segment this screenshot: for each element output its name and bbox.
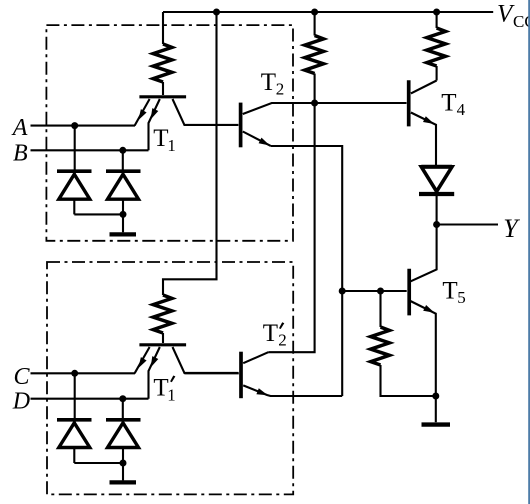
- T1' emitter 1: [135, 347, 150, 373]
- diode D5 (output shift diode): [419, 167, 454, 225]
- arrow T1 emitter2: [151, 108, 159, 119]
- junction dot D-D4: [119, 395, 126, 402]
- wire A to diode D1: [74, 126, 76, 176]
- wire rail drop to R1: [162, 12, 164, 44]
- svg-text:T: T: [153, 125, 168, 152]
- junction dot R3 top: [377, 288, 384, 295]
- junction dot T5 base node: [339, 288, 346, 295]
- svg-text:1: 1: [167, 385, 176, 404]
- dashed box block 2 (lower AND gate): [47, 262, 293, 494]
- svg-text:B: B: [13, 140, 28, 166]
- svg-text:T: T: [261, 69, 276, 96]
- svg-text:C: C: [14, 364, 31, 390]
- wire R1' to T1' base: [162, 333, 164, 343]
- svg-text:T: T: [442, 278, 457, 305]
- svg-text:4: 4: [457, 100, 466, 119]
- ground 2: [110, 480, 137, 484]
- page right blue border: [528, 0, 530, 504]
- diode D1: [57, 171, 92, 214]
- svg-text:D: D: [12, 389, 30, 415]
- wire to ground 1: [122, 214, 124, 232]
- arrow T1' emitter2: [151, 356, 159, 367]
- arrow T2' emitter: [256, 388, 267, 395]
- T1' collector: [173, 347, 239, 373]
- wire to ground 3: [435, 396, 437, 422]
- arrow T5 emitter: [423, 305, 434, 313]
- wire rail drop to R4: [436, 12, 438, 28]
- resistor R1': [153, 295, 172, 333]
- junction dot rail-R2: [311, 9, 318, 16]
- dashed box block 1 (upper AND gate): [46, 25, 293, 241]
- junction dot B-D2: [119, 147, 126, 154]
- T4 collector: [411, 81, 437, 94]
- input wire A: [31, 125, 136, 127]
- resistor R4: [427, 28, 446, 66]
- T5 base wire: [342, 290, 407, 292]
- junction dot rail-R4: [433, 9, 440, 16]
- wire rail drop x=216 to lower block: [163, 12, 217, 295]
- junction dot R3 bottom ground: [432, 393, 439, 400]
- wire VCC rail: [163, 11, 493, 13]
- T2' emitter: [243, 385, 342, 396]
- wire R3 bottom to ground node: [381, 365, 436, 396]
- wire R2 to node N1: [314, 74, 316, 104]
- svg-text:2: 2: [276, 79, 285, 98]
- T1 emitter 1: [135, 99, 150, 126]
- svg-text:A: A: [11, 115, 28, 141]
- diode D2: [106, 171, 141, 214]
- wire R4 to T4 collector: [436, 66, 438, 81]
- resistor R2: [305, 36, 324, 74]
- junction dot rail-x216: [213, 9, 220, 16]
- svg-text:1: 1: [167, 136, 176, 155]
- transistor T2' base bar: [239, 352, 243, 399]
- wire D to diode D4: [122, 399, 124, 424]
- T2' base wire: [184, 372, 238, 374]
- junction dot D4-ground: [120, 460, 127, 467]
- T4 emitter: [411, 113, 436, 167]
- resistor R1: [153, 44, 172, 82]
- wire diode bottoms join: [74, 213, 123, 215]
- wire R1 to T1 base: [162, 82, 164, 95]
- diode D4: [106, 420, 141, 463]
- diode D3: [57, 420, 92, 463]
- T1' emitter 2: [149, 347, 160, 399]
- svg-text:T: T: [263, 320, 278, 347]
- transistor T1' base bar: [139, 343, 186, 346]
- input wire C: [31, 372, 136, 374]
- arrow T1' emitter1: [138, 357, 146, 368]
- junction dot C-D3: [71, 370, 78, 377]
- wire T2 emitter run: [271, 146, 343, 396]
- svg-text:2: 2: [278, 330, 287, 349]
- transistor T5 base bar: [407, 269, 411, 316]
- T5 emitter: [410, 301, 435, 396]
- transistor T4 base bar: [407, 80, 411, 126]
- junction dot node N1: [311, 100, 318, 107]
- input wire B: [31, 149, 149, 151]
- junction dot D2-ground: [120, 211, 127, 218]
- ground 3: [422, 422, 451, 426]
- junction dot output Y node: [433, 221, 440, 228]
- wire rail drop to R2: [314, 12, 316, 36]
- wire C to diode D3: [74, 373, 76, 424]
- arrow T2 emitter: [259, 138, 270, 146]
- T2 collector: [243, 103, 407, 114]
- T1 emitter 2: [149, 99, 160, 150]
- T1 collector: [173, 99, 239, 125]
- svg-text:Y: Y: [503, 214, 520, 243]
- svg-text:5: 5: [457, 288, 466, 307]
- T2' collector: [243, 352, 268, 363]
- svg-text:T: T: [441, 90, 456, 117]
- input wire D: [31, 398, 149, 400]
- wire output Y: [437, 223, 498, 225]
- svg-text:CC: CC: [513, 12, 530, 31]
- wire to ground 2: [122, 463, 124, 480]
- resistor R3: [371, 327, 390, 365]
- junction dot A-D1: [71, 122, 78, 129]
- arrow T1 emitter1: [138, 109, 146, 120]
- arrow T4 emitter: [423, 116, 434, 124]
- resistor R3 top lead: [379, 291, 381, 327]
- transistor T1 (multi-emitter) base bar: [139, 95, 186, 98]
- T2 emitter: [243, 132, 271, 146]
- wire node N1 down to T2' collector: [268, 103, 314, 352]
- wire diode bottoms join lower: [74, 462, 123, 464]
- transistor T2 base bar: [239, 103, 243, 148]
- wire B to diode D2: [122, 150, 124, 176]
- wire output node to T5 collector: [410, 225, 436, 282]
- ground 1: [110, 232, 137, 236]
